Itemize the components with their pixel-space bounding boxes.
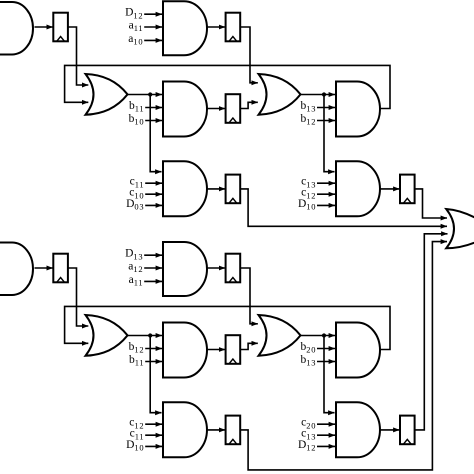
junction node (OR22 output) — [322, 333, 326, 337]
flip-flop FF25 — [400, 416, 415, 445]
flip-flop FF21 — [53, 254, 68, 283]
svg-text:a12: a12 — [128, 261, 143, 275]
wire FF24 to final OR input 4 — [240, 242, 447, 470]
wire D12 input — [317, 445, 335, 447]
wire AND-D to FF — [207, 26, 225, 28]
wire OR22 output to AND-b2 — [301, 335, 336, 337]
AND gate U1 (inputs D12,a11,a10) — [163, 1, 207, 55]
wire c11 input — [145, 182, 162, 184]
wire FF21 to OR input 1 — [68, 268, 88, 326]
flip-flop FF22 — [226, 335, 241, 364]
wire c20 input — [317, 423, 335, 425]
wire b12 input — [317, 120, 335, 122]
wire b11 input — [145, 107, 162, 109]
wire FF13 to OR2 input 1 — [240, 27, 258, 83]
wire junction to AND-c1 input — [150, 336, 161, 413]
wire A2 output to FF — [35, 267, 53, 269]
wire b20 input — [317, 348, 335, 350]
svg-text:b13: b13 — [301, 354, 317, 368]
wire a11 input — [144, 26, 162, 28]
AND gate U7 (inputs D13,a12,a11) — [163, 242, 207, 296]
AND gate U2b1 (b12,b11) — [163, 323, 207, 378]
wire FF14 to final OR input 2 — [240, 189, 447, 226]
svg-text:b13: b13 — [301, 100, 317, 114]
wire FF25 to final OR input 3 — [415, 234, 448, 430]
wire AND-c2 to FF — [380, 429, 400, 431]
flip-flop FF23 — [226, 254, 241, 283]
wire AND-b1 to FF — [207, 108, 225, 110]
wire c11 input — [145, 434, 162, 436]
wire c13 input — [317, 182, 335, 184]
junction node (OR11 output) — [148, 92, 152, 96]
flip-flop FF11 — [53, 13, 68, 42]
svg-text:b10: b10 — [129, 113, 145, 127]
junction node (OR12 output) — [322, 92, 326, 96]
wire FF23 to OR2 input 1 — [240, 268, 258, 324]
wire b12 input — [145, 348, 162, 350]
svg-text:a10: a10 — [128, 33, 143, 47]
OR gate O22 (right) — [259, 315, 301, 356]
OR gate O21 (left) — [86, 315, 128, 356]
wire AND-c2 to FF — [380, 188, 400, 190]
wire c10 input — [145, 193, 162, 195]
feedback wire from AND-b2 output (loop) — [65, 65, 390, 108]
wire OR12 output to AND-b2 — [301, 94, 336, 96]
junction node (OR21 output) — [148, 333, 152, 337]
wire D10 input — [317, 204, 335, 206]
wire junction to AND-c2 input — [324, 336, 335, 413]
wire D13 input — [144, 254, 162, 256]
feedback wire from AND-b2 output (loop) — [65, 306, 390, 349]
flip-flop FF13 — [226, 13, 241, 42]
svg-text:b11: b11 — [129, 100, 144, 114]
flip-flop FF14 — [226, 175, 241, 204]
wire a11 input — [144, 280, 162, 282]
wire b10 input — [145, 120, 162, 122]
svg-text:D13: D13 — [125, 248, 143, 262]
AND gate U1b1 (b11,b10) — [163, 82, 207, 137]
wire b13 input — [317, 107, 335, 109]
flip-flop FF12 — [226, 94, 241, 123]
svg-text:b11: b11 — [129, 354, 144, 368]
AND gate A1 (left-clipped input gate, top slice) — [0, 2, 33, 55]
AND gate U1b2 (b13,b12) — [336, 82, 380, 137]
wire FF12 to OR2 input 2 — [240, 102, 258, 108]
OR gate O12 (right) — [259, 74, 301, 115]
svg-text:b12: b12 — [129, 341, 145, 355]
wire AND-c1 to FF — [207, 429, 225, 431]
wire a12 input — [144, 267, 162, 269]
AND gate U2c2 (c20,c13,D12) — [336, 402, 380, 457]
svg-text:b12: b12 — [301, 113, 317, 127]
wire OR11 output to AND-b1 — [128, 94, 163, 96]
wire b11 input — [145, 361, 162, 363]
svg-text:a11: a11 — [129, 274, 144, 288]
wire c13 input — [317, 434, 335, 436]
wire junction to AND-c1 input — [150, 95, 161, 172]
AND gate U2b2 (b20,b13) — [336, 323, 380, 378]
wire AND-c1 to FF — [207, 188, 225, 190]
wire FF22 to OR2 input 2 — [240, 343, 258, 349]
wire junction to AND-c2 input — [324, 95, 335, 172]
OR gate O5 (final output OR, right-clipped) — [446, 209, 474, 248]
wire a10 input — [144, 39, 162, 41]
wire D10 input — [145, 445, 162, 447]
svg-text:D12: D12 — [125, 7, 143, 21]
svg-text:b20: b20 — [301, 341, 317, 355]
AND gate U1c2 (c13,c12,D10) — [336, 161, 380, 216]
wire FF11 to OR input 1 — [68, 27, 88, 85]
wire AND-D to FF — [207, 267, 225, 269]
wire D12 input — [144, 13, 162, 15]
wire b13 input — [317, 361, 335, 363]
wire c12 input — [317, 193, 335, 195]
wire c12 input — [145, 423, 162, 425]
wire OR21 output to AND-b1 — [128, 335, 163, 337]
flip-flop FF15 — [400, 175, 415, 204]
OR gate O11 (left) — [86, 74, 128, 115]
svg-text:a11: a11 — [129, 20, 144, 34]
wire D03 input — [145, 204, 162, 206]
AND gate U1c1 (c11,c10,D03) — [163, 161, 207, 216]
AND gate A2 (left-clipped input gate, bottom slice) — [0, 243, 33, 296]
AND gate U2c1 (c12,c11,D10) — [163, 402, 207, 457]
wire A1 output to FF — [35, 26, 53, 28]
flip-flop FF24 — [226, 416, 241, 445]
wire AND-b1 to FF — [207, 349, 225, 351]
wire FF15 to final OR input 1 — [415, 189, 447, 218]
